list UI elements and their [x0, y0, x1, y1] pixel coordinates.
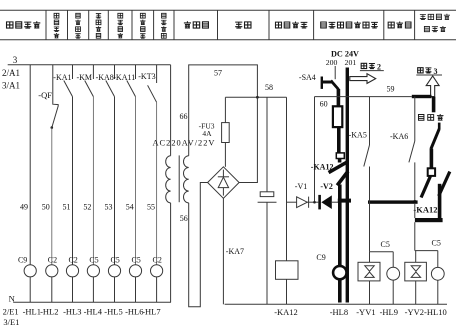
svg-text:-SA4: -SA4 — [299, 73, 316, 82]
junction node 57/58 — [256, 96, 259, 99]
svg-text:-KA12: -KA12 — [413, 204, 437, 214]
svg-text:-YV1: -YV1 — [356, 307, 375, 317]
header cell: standby power and monitoring — [321, 22, 378, 28]
svg-text:C2: C2 — [48, 256, 57, 265]
fuse -FU3 4A — [199, 97, 230, 167]
svg-text:AC220AV/22V: AC220AV/22V — [153, 139, 216, 148]
svg-text:-KA11: -KA11 — [113, 73, 135, 82]
node 58 : distribution wire — [225, 96, 286, 98]
header cell: oil pump running (vertical) — [96, 14, 101, 39]
svg-text:4A: 4A — [202, 129, 212, 138]
svg-text:53: 53 — [105, 203, 113, 212]
indicator lamp -HL1 — [24, 265, 36, 277]
svg-text:-KA12: -KA12 — [274, 307, 298, 317]
wire : lamp column 7 — [156, 102, 158, 264]
header cell: power indication (dian yuan zhi shi) — [7, 21, 41, 28]
transformer T primary feed wire (node 66 side) — [170, 65, 172, 156]
svg-text:58: 58 — [265, 83, 273, 92]
svg-text:C5: C5 — [381, 240, 390, 249]
svg-text:3: 3 — [434, 67, 438, 76]
solenoid valve -YV2 branch — [405, 222, 441, 304]
svg-text:-HL4: -HL4 — [84, 306, 103, 316]
svg-text:C5: C5 — [110, 256, 119, 265]
indicator lamp -HL3 — [66, 265, 78, 277]
node 60 wire (thick) — [337, 89, 341, 106]
header cell: rectification — [235, 22, 251, 28]
svg-text:-V1: -V1 — [295, 182, 307, 191]
pump-running contact branch (beng yun xing) — [418, 97, 443, 174]
svg-text:-QF: -QF — [38, 90, 52, 100]
wire 201 main DC bus (bold) — [346, 68, 349, 303]
transformer T primary winding — [166, 156, 171, 203]
bridge rectifier — [208, 167, 240, 199]
svg-text:2/A1: 2/A1 — [2, 68, 20, 78]
capacitor (filter) plates — [260, 192, 274, 197]
svg-text:-V2: -V2 — [320, 182, 332, 191]
header cell: fault warning (vertical) — [75, 13, 80, 38]
node 59 thick segment — [412, 95, 432, 98]
svg-text:-KM: -KM — [76, 73, 92, 82]
svg-text:-HL2: -HL2 — [40, 306, 58, 316]
svg-text:N: N — [9, 294, 15, 304]
header cell: motor overload (vertical) — [54, 13, 59, 38]
relay contact -KA6 — [390, 97, 415, 201]
svg-text:-YV2-HL10: -YV2-HL10 — [405, 307, 447, 317]
svg-text:50: 50 — [42, 203, 50, 212]
svg-text:-HL7: -HL7 — [142, 306, 160, 316]
disconnect switch -SA4 — [299, 73, 339, 90]
changeover contact -KA12 (left blade) — [329, 162, 348, 173]
svg-text:C9: C9 — [316, 253, 325, 262]
svg-text:3/E1: 3/E1 — [3, 317, 19, 327]
svg-text:3/A1: 3/A1 — [2, 81, 20, 91]
svg-text:-HL6: -HL6 — [125, 306, 143, 316]
svg-text:-KA1: -KA1 — [53, 73, 71, 82]
svg-text:59: 59 — [387, 85, 395, 94]
header cell: AC/DC power switching (two lines) — [420, 14, 450, 32]
indicator lamp -HL2 — [46, 265, 58, 277]
svg-text:-HL8: -HL8 — [330, 307, 348, 317]
wire 59 drop to diode row — [314, 97, 316, 203]
svg-text:-HL3: -HL3 — [63, 306, 81, 316]
wire : lamp column 3 — [72, 97, 74, 265]
relay contact -KA5 — [349, 97, 370, 252]
transformer T core — [178, 155, 180, 202]
header cell: transformer — [184, 21, 209, 28]
svg-text:-KA5: -KA5 — [349, 130, 367, 139]
diode -V1 — [287, 182, 319, 208]
svg-text:66: 66 — [180, 112, 188, 121]
header cell: power supply monitoring — [275, 22, 307, 28]
bottom DC bus — [225, 303, 447, 305]
svg-text:3: 3 — [13, 55, 18, 65]
svg-text:C2: C2 — [68, 256, 77, 265]
indicator lamp -HL6 — [129, 265, 141, 277]
relay contact -KA1 — [53, 65, 72, 97]
svg-text:C5: C5 — [131, 256, 140, 265]
svg-text:56: 56 — [180, 214, 188, 223]
node N : neutral bus — [13, 301, 171, 303]
wire 200 branch down (bold) with lamp -HL8 — [338, 185, 342, 303]
svg-text:C2: C2 — [153, 256, 162, 265]
improvement-2 note (gai jin 2) — [350, 62, 384, 83]
junction bar at diode row — [338, 199, 351, 203]
relay contact -KA11 — [113, 65, 135, 97]
indicator lamp -HL7 — [151, 265, 163, 277]
indicator lamp -HL4 — [87, 265, 99, 277]
header table top border — [0, 9, 456, 11]
svg-text:-HL1: -HL1 — [23, 306, 41, 316]
svg-text:49: 49 — [20, 203, 28, 212]
indicator lamp -HL10 — [405, 251, 447, 317]
header cell: solenoid valve — [388, 22, 411, 28]
time relay contact -KT3 — [138, 65, 156, 103]
breaker aux contact -QF — [38, 65, 58, 129]
svg-text:57: 57 — [214, 68, 222, 77]
svg-text:2/E1: 2/E1 — [3, 306, 19, 316]
svg-text:-HL5: -HL5 — [104, 306, 122, 316]
indicator lamp -HL9 — [380, 252, 400, 317]
solenoid valve -YV1 branch — [356, 240, 393, 317]
wire 57 : secondary top to rectifier feed — [189, 65, 258, 156]
thin link from contact to bottom bar — [414, 204, 416, 218]
wire 200 — [334, 66, 336, 79]
wire : lamp column 6 — [135, 97, 137, 265]
svg-text:51: 51 — [63, 203, 71, 212]
wire : lamp column 1 (power indication) — [29, 65, 31, 265]
svg-text:2: 2 — [377, 62, 381, 71]
indicator lamp -HL5 — [108, 265, 120, 277]
svg-text:-KA8: -KA8 — [96, 73, 114, 82]
svg-text:-KA7: -KA7 — [226, 247, 244, 256]
improvement-3 note (gai jin 3) — [416, 67, 442, 97]
wire : lamp column 2 below -QF — [51, 128, 53, 265]
svg-text:54: 54 — [126, 203, 134, 212]
header column separators — [46, 10, 415, 40]
svg-text:-HL9: -HL9 — [380, 307, 398, 317]
svg-text:C5: C5 — [432, 238, 441, 247]
svg-text:200: 200 — [326, 58, 338, 67]
header cell: fully open indication (vertical) — [118, 13, 123, 38]
changeover contact -KA12 (right, double blade) — [413, 168, 449, 222]
svg-text:-KT3: -KT3 — [138, 72, 155, 81]
transformer T secondary winding — [184, 156, 189, 203]
fuse on 200 branch (bold) — [333, 106, 342, 127]
contactor aux contact -KM — [76, 65, 93, 97]
header cell: fully closed indication (vertical) — [140, 13, 145, 38]
lamp bottom wires to neutral — [30, 277, 156, 302]
wire : bridge DC- down (-KA7 branch) — [222, 198, 224, 304]
wire : lamp column 4 — [92, 97, 94, 265]
thick link wire at node level 202 — [368, 200, 418, 203]
svg-text:60: 60 — [320, 99, 328, 108]
svg-text:-KA6: -KA6 — [390, 132, 408, 141]
svg-text:C5: C5 — [89, 256, 98, 265]
header cell: opening failure (vertical) — [161, 13, 166, 38]
capacitor C branch wire from node 58 — [266, 97, 268, 192]
wire 56 : secondary bottom loop to bridge AC input — [189, 183, 208, 307]
terminal block on 200 branch — [336, 153, 344, 159]
svg-text:201: 201 — [345, 58, 357, 67]
header table bottom border — [0, 39, 456, 41]
relay contact -KA8 — [96, 65, 115, 97]
svg-text:-KA12: -KA12 — [311, 163, 334, 172]
wire : primary return to neutral — [170, 203, 172, 302]
diode -V2 (bold) — [318, 182, 338, 209]
wire : node 58 right drop to diode row and relay coil — [286, 97, 288, 260]
node 59 wire — [315, 96, 412, 98]
svg-text:55: 55 — [147, 203, 155, 212]
wire : bridge right output to node 57 drop — [239, 97, 257, 182]
node 3 : top phase bus — [8, 64, 171, 66]
wire : lamp column 5 — [114, 97, 116, 265]
svg-text:52: 52 — [83, 203, 91, 212]
wire : capacitor bottom to bottom bus — [266, 202, 268, 304]
relay coil -KA12 — [276, 261, 299, 280]
svg-text:C9: C9 — [18, 256, 27, 265]
